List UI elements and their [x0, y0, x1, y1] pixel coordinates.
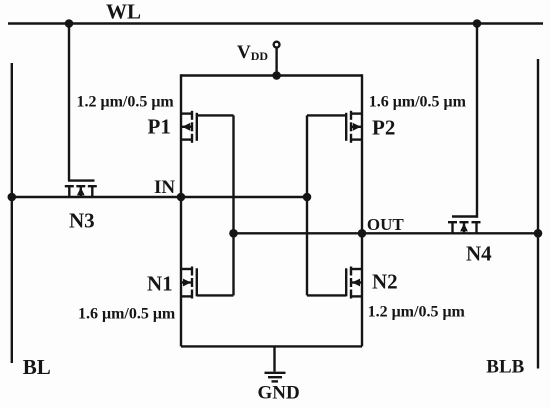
node: VDD junction [272, 71, 281, 80]
wire left inverter rail [180, 74, 182, 346]
wire WL (word line) [8, 22, 543, 24]
node IN on left rail [177, 193, 186, 202]
wire left gates vertical (P1/N1 gates to OUT) [232, 115, 234, 295]
wire N2 gate wire [307, 294, 346, 296]
transistor N2 (NMOS) [346, 267, 362, 299]
transistor N1 (NMOS) [181, 267, 197, 299]
node OUT on right rail [358, 229, 367, 238]
node: WL to N3 gate junction [65, 19, 74, 28]
svg-text:1.6 μm/0.5 μm: 1.6 μm/0.5 μm [78, 306, 176, 323]
transistor P1 (PMOS) [181, 111, 197, 143]
wire IN line (BL through N3 to gates of P2/N2) [12, 196, 307, 198]
wire P2 gate wire [307, 114, 346, 116]
wire GND stub [273, 346, 275, 371]
svg-text:N2: N2 [372, 270, 398, 294]
node: WL to N4 gate junction [473, 19, 482, 28]
wire VDD stub [275, 48, 277, 76]
node: BL-IN junction [8, 193, 17, 202]
transistor P2 (PMOS) [346, 111, 362, 143]
svg-text:WL: WL [106, 0, 141, 24]
svg-text:GND: GND [258, 383, 300, 404]
svg-text:1.2 μm/0.5 μm: 1.2 μm/0.5 μm [368, 303, 466, 320]
wire right inverter rail [361, 74, 363, 346]
power VDD terminal circle [274, 42, 280, 48]
svg-text:OUT: OUT [367, 215, 405, 234]
wire right gates vertical (P2/N2 gates to IN) [306, 115, 308, 295]
svg-text:BL: BL [23, 355, 51, 379]
svg-text:BLB: BLB [486, 356, 524, 377]
node: OUT-BLB junction [534, 229, 543, 238]
ground GND symbol [265, 373, 286, 382]
wire BL (bit line) [11, 63, 13, 363]
svg-text:1.2 μm/0.5 μm: 1.2 μm/0.5 μm [77, 93, 175, 110]
svg-text:N3: N3 [69, 208, 95, 232]
svg-text:P2: P2 [372, 116, 395, 140]
svg-text:IN: IN [154, 177, 175, 198]
wire P1 gate wire [197, 114, 234, 116]
wire WL drop to N4 gate [476, 24, 478, 218]
wire VDD rail [181, 74, 362, 76]
wire GND rail [181, 345, 362, 347]
transistor N3 (NMOS access) [65, 181, 97, 197]
node: IN to right gates junction [303, 193, 312, 202]
svg-text:VDD: VDD [237, 42, 268, 63]
wire OUT line (left gates through N4 to BLB) [234, 232, 539, 234]
transistor N4 (NMOS access) [448, 217, 481, 234]
svg-text:P1: P1 [148, 115, 171, 139]
wire BLB (bit line bar) [537, 59, 539, 369]
svg-text:N1: N1 [147, 272, 173, 296]
wire N1 gate wire [197, 294, 234, 296]
node: OUT to left gates junction [229, 229, 238, 238]
svg-text:1.6 μm/0.5 μm: 1.6 μm/0.5 μm [369, 94, 467, 111]
svg-text:N4: N4 [466, 241, 492, 265]
wire WL drop to N3 gate [68, 24, 70, 181]
